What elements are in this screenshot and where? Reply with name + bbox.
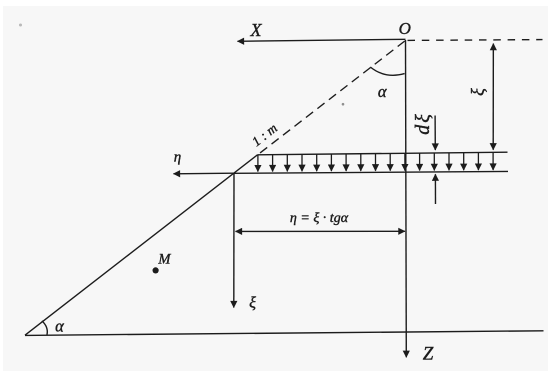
svg-text:ξ: ξ xyxy=(249,294,256,311)
svg-text:O: O xyxy=(399,19,411,38)
svg-text:ξ: ξ xyxy=(467,88,487,96)
svg-text:dξ: dξ xyxy=(412,112,434,135)
svg-text:α: α xyxy=(378,82,387,101)
svg-text:X: X xyxy=(250,20,263,40)
svg-text:α: α xyxy=(55,317,64,336)
svg-text:η = ξ · tgα: η = ξ · tgα xyxy=(290,211,349,226)
svg-text:M: M xyxy=(157,251,171,267)
svg-text:η: η xyxy=(174,149,181,165)
svg-text:Z: Z xyxy=(423,344,434,365)
